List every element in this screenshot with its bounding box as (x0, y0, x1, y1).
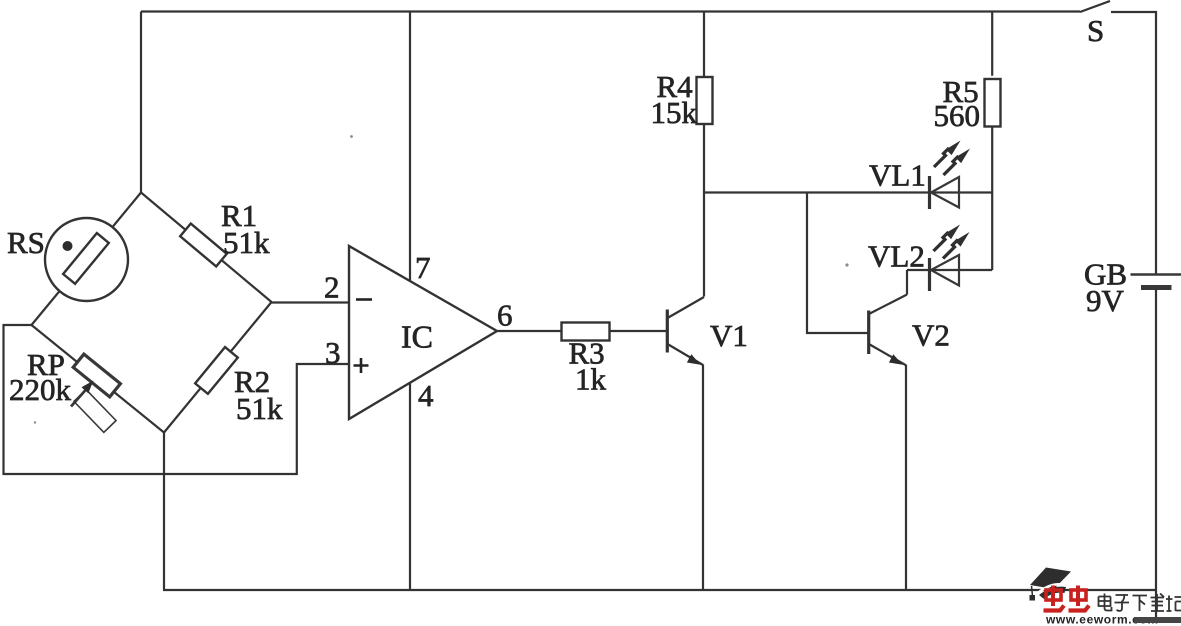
watermark dark bar (1134, 617, 1181, 623)
LED VL2 cathode bar (928, 258, 931, 291)
LED VL1 light arrows (934, 141, 970, 176)
sensor RS body (63, 233, 109, 284)
wire R4 down through junction to V1 collector (703, 124, 705, 297)
wire op-amp output to R3 (497, 330, 562, 332)
watermark black characters 电子下载站 (1099, 594, 1181, 612)
potentiometer RP lower thin rectangle (74, 390, 116, 433)
svg-text:4: 4 (418, 378, 434, 413)
LED VL1 triangle (931, 177, 959, 208)
svg-text:51k: 51k (236, 391, 283, 426)
battery GB positive plate (1131, 273, 1181, 276)
speck near VL2 left (845, 263, 848, 266)
op-amp minus sign (356, 298, 372, 301)
svg-text:9V: 9V (1086, 283, 1125, 318)
transistor V1 emitter diagonal with arrow (668, 344, 704, 365)
transistor V2 collector diagonal (869, 295, 907, 315)
wire R3 to V1 base (609, 330, 667, 332)
wire branch down to V2 base (807, 193, 869, 334)
transistor V2 base bar (867, 311, 870, 355)
resistor R4 wire from top rail (703, 12, 705, 78)
speck near op-amp top (350, 135, 353, 138)
wire V2 emitter to bottom rail (905, 365, 907, 591)
wire top rail right segment (1111, 12, 1156, 274)
resistor R5 wire from top rail (991, 12, 993, 76)
wire bridge edge top-left (through RS) (32, 193, 142, 326)
switch S blade (1080, 1, 1110, 12)
svg-text:7: 7 (415, 250, 431, 285)
svg-text:51k: 51k (223, 225, 270, 260)
LED VL2 light arrows (934, 225, 970, 259)
resistor R5 body (985, 79, 1001, 127)
wire bridge bottom node to bottom rail (163, 433, 165, 591)
wire bridge edge top-right (through R1) (141, 193, 272, 303)
svg-text:3: 3 (325, 335, 341, 370)
wire bottom rail (163, 589, 1157, 591)
resistor R1 body (180, 224, 227, 267)
wire right node to op-amp pin 2 (272, 301, 350, 303)
watermark red characters 虫虫 (1044, 586, 1090, 611)
potentiometer RP wiper arrow (71, 390, 86, 407)
potentiometer RP body (73, 354, 120, 397)
wire top rail left segment (141, 10, 1080, 12)
wire VL2 anode horizontal through triangle (907, 269, 992, 271)
LED VL2 triangle (931, 255, 959, 286)
svg-text:VL1: VL1 (869, 158, 926, 193)
svg-text:560: 560 (934, 98, 981, 133)
svg-text:IC: IC (401, 319, 433, 355)
svg-text:220k: 220k (9, 372, 72, 407)
op-amp pin 7 wire (409, 12, 411, 282)
wire right vertical below battery to bottom rail (1155, 290, 1157, 623)
wire left vertical from top rail to bridge top (140, 12, 142, 194)
svg-text:V2: V2 (912, 318, 950, 353)
wire bridge edge bottom-right (through R2) (164, 302, 272, 433)
wire bridge edge bottom-left (through RP) (32, 325, 165, 433)
svg-text:S: S (1087, 13, 1104, 48)
sensor RS circle (45, 218, 128, 301)
op-amp plus sign (354, 358, 369, 373)
battery GB negative plate (1141, 285, 1172, 290)
svg-text:1k: 1k (575, 362, 607, 397)
wire V2 collector step to VL2 cathode (906, 270, 908, 295)
svg-text:2: 2 (324, 270, 340, 305)
svg-text:6: 6 (497, 298, 513, 333)
wire left node to op-amp pin 3 (left, down, right, up) (4, 325, 350, 474)
wire V1 emitter to bottom rail (702, 365, 704, 591)
resistor R4 body (697, 77, 713, 124)
watermark graduation cap (1030, 568, 1072, 601)
transistor V1 base bar (666, 310, 669, 353)
svg-text:RS: RS (7, 225, 45, 260)
resistor R2 body (195, 347, 238, 394)
wire junction horizontal (V1 collector node through VL1 to R5 line) (704, 191, 992, 193)
svg-text:VL2: VL2 (868, 239, 925, 274)
transistor V1 collector diagonal (668, 297, 705, 318)
resistor R3 body (562, 323, 610, 341)
transistor V2 emitter diagonal with arrow (869, 344, 906, 365)
wire R5 down to VL2 anode level (991, 127, 993, 271)
op-amp IC triangle (349, 246, 497, 419)
svg-text:V1: V1 (710, 318, 748, 353)
svg-text:15k: 15k (651, 95, 698, 130)
speck near RP bottom (34, 421, 36, 423)
op-amp pin 4 wire (409, 383, 411, 590)
LED VL1 cathode bar (928, 176, 931, 209)
sensor RS dot (63, 241, 73, 251)
